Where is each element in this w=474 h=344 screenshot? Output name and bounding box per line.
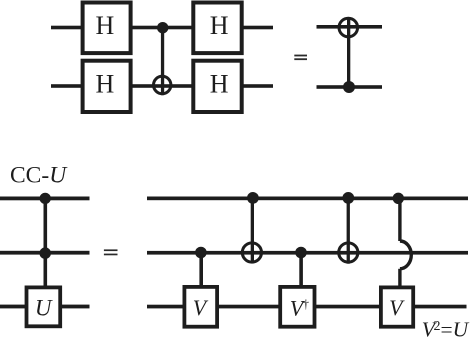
svg-text:†: † [303,297,309,311]
svg-text:H: H [210,70,229,99]
svg-text:U: U [35,296,53,321]
gate H1 (qubit 0, column 1) [83,3,131,54]
wire: bottom-right circuit qubit 1 [147,251,468,255]
control dot (top-right CNOT, qubit 1) [343,81,355,93]
control dot (qubit 0, controls last V) [393,193,404,204]
target oplus (top-left CNOT, qubit 1) [154,76,171,93]
gate H4 (qubit 1, column 3) [193,61,241,112]
control dot (CNOT2, qubit 0) [342,192,354,204]
wire: control link to gate V (first) [199,252,203,286]
svg-text:H: H [210,11,229,40]
gate H2 (qubit 1, column 1) [83,61,131,112]
svg-text:V2=U: V2=U [422,317,470,341]
wire: control link to gate V-dagger [299,252,303,286]
svg-text:CC-U: CC-U [10,162,68,188]
svg-text:H: H [96,70,115,99]
control dot (qubit 1, controls V-dagger) [295,247,307,259]
gate H3 (qubit 0, column 3) [193,3,241,54]
target oplus (CNOT2, qubit 1) [339,243,358,262]
control dot (CNOT1, qubit 0) [247,192,259,204]
control dot (top-left CNOT, qubit 0) [157,22,168,33]
target oplus (CNOT1, qubit 1) [242,243,261,262]
wire: top-left circuit qubit 1 [51,84,273,88]
wire: top-left circuit qubit 0 [51,26,273,30]
equals sign (bottom identity) [104,249,118,255]
wire: CNOT2 vertical link (bottom-right) [347,198,350,264]
wire: bottom-left circuit qubit 0 [0,197,90,201]
wire: bottom-right circuit qubit 2 [147,305,467,309]
wire: CNOT vertical link (top-left circuit) [161,27,164,95]
target oplus (top-right CNOT, qubit 0) [339,18,358,37]
wire: bottom-left circuit qubit 2 [0,305,90,309]
wire: control link upper segment (last V) [398,198,401,241]
equals sign (top identity) [294,55,307,61]
wire: CNOT vertical link (top-right circuit) [347,17,350,87]
wire: control link lower segment (last V) [398,269,401,286]
gate V1 (qubit 2, first) [184,287,217,327]
gate V-dagger (qubit 2, second) [280,287,314,327]
gate U (qubit 2) [27,287,61,326]
control dot (CC-U, qubit 0) [40,193,51,204]
svg-text:H: H [96,11,115,40]
control dot (qubit 1, controls first V) [195,247,207,259]
wire: bottom-right circuit qubit 0 [147,197,468,201]
gate V2 (qubit 2, last) [381,287,413,326]
wire: top-right circuit qubit 1 [317,85,383,89]
wire: CC-U vertical control link [44,198,48,286]
wire: crossover hop over qubit 1 [400,241,411,269]
wire: bottom-left circuit qubit 1 [0,251,90,255]
wire: top-right circuit qubit 0 [317,25,383,29]
control dot (CC-U, qubit 1) [39,247,51,259]
wire: CNOT1 vertical link (bottom-right) [251,198,254,264]
